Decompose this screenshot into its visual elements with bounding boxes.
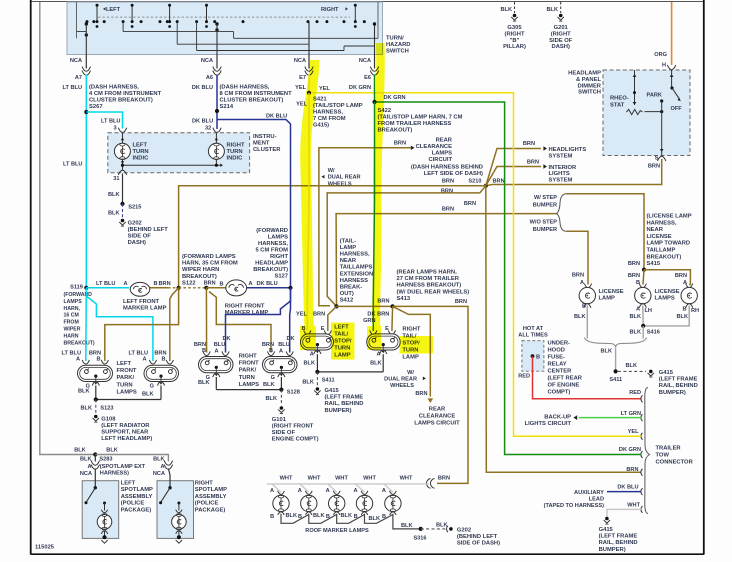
note w/ dual rear wheels (lower): [384, 370, 426, 389]
wire BLK right license lamp to S416: [643, 306, 689, 326]
svg-text:LIGHTS: LIGHTS: [549, 171, 570, 177]
wire BRN left marker lamp B to S122: [150, 281, 179, 288]
splice S422: [372, 100, 376, 104]
highlighter block left tail lamp label: [331, 323, 355, 360]
svg-text:DK BLU: DK BLU: [257, 281, 278, 287]
highlighter band over E6 green wire: [372, 43, 385, 342]
wire BRN S210 to S122 (front lamps feed): [179, 186, 486, 288]
svg-text:E7: E7: [299, 75, 306, 81]
splice S210: [442, 179, 505, 188]
svg-text:WIPER HARN: WIPER HARN: [182, 267, 219, 273]
switch internal routing wires: [77, 22, 379, 55]
svg-text:HARNESS): HARNESS): [100, 471, 129, 477]
switch contact dashed line: [98, 16, 350, 18]
svg-text:27 CM FROM TRAILER: 27 CM FROM TRAILER: [397, 276, 460, 282]
svg-text:MARKER LAMP: MARKER LAMP: [123, 305, 167, 311]
svg-text:A: A: [270, 488, 274, 494]
svg-text:SIDE OF: SIDE OF: [128, 234, 152, 240]
svg-text:DK GRN: DK GRN: [384, 95, 406, 101]
svg-text:CIRCUIT: CIRCUIT: [428, 157, 452, 163]
svg-text:DK BLU: DK BLU: [192, 85, 213, 91]
rheostat: [610, 70, 643, 115]
splice S128: [266, 388, 300, 406]
svg-text:BLK: BLK: [370, 361, 382, 367]
wire BLK spotlamp feed from top: [40, 2, 96, 455]
svg-text:S215: S215: [128, 205, 141, 211]
svg-text:SPOTLAMP: SPOTLAMP: [195, 487, 227, 493]
svg-text:YEL: YEL: [295, 85, 306, 91]
svg-text:A: A: [76, 357, 80, 363]
right spotlamp assembly box: [157, 469, 194, 544]
svg-text:RIGHT FRONT: RIGHT FRONT: [225, 303, 265, 309]
svg-text:LEAD: LEAD: [589, 496, 604, 502]
wire BRN S210 to headlights system: [486, 141, 547, 186]
splice S413: [377, 299, 394, 309]
wire LT BLU S119 to left marker lamp: [86, 281, 129, 288]
svg-text:A: A: [298, 488, 302, 494]
wire BRN S412 to S413: [337, 305, 393, 307]
svg-text:NCA: NCA: [153, 471, 165, 477]
svg-text:BRN: BRN: [442, 207, 454, 213]
svg-text:DASH): DASH): [552, 44, 570, 50]
svg-text:S127: S127: [274, 274, 288, 280]
svg-text:INSTRU-: INSTRU-: [253, 134, 277, 140]
svg-text:(LICENSE LAMP: (LICENSE LAMP: [647, 214, 692, 220]
wire RED to trailer connector: [533, 356, 642, 399]
wire ORG to headlamp switch: [654, 2, 671, 65]
wire DK BLU S214 branch to S127: [217, 114, 291, 288]
svg-text:W/: W/: [407, 370, 414, 376]
svg-text:BLK: BLK: [108, 192, 120, 198]
svg-text:BREAKOUT): BREAKOUT): [253, 267, 288, 273]
ground G201: [547, 2, 573, 50]
svg-text:B: B: [154, 281, 158, 287]
svg-text:LAMPS: LAMPS: [268, 235, 288, 241]
svg-text:LEFT: LEFT: [106, 7, 121, 13]
svg-text:G: G: [150, 384, 154, 390]
svg-text:BRN: BRN: [464, 201, 476, 207]
connector E7 (NCA): [294, 58, 313, 91]
svg-text:(POLICE: (POLICE: [121, 501, 145, 507]
svg-text:(TAIL/STOP LAMP HARN, 7 CM: (TAIL/STOP LAMP HARN, 7 CM: [378, 115, 463, 121]
wire BRN S415 to center license lamp: [628, 270, 644, 286]
svg-text:BRN: BRN: [159, 281, 171, 287]
svg-text:BUMPER): BUMPER): [325, 408, 352, 414]
svg-text:BLK: BLK: [574, 314, 586, 320]
svg-text:S415: S415: [647, 261, 661, 267]
svg-text:LEFT: LEFT: [117, 361, 132, 367]
wire BRN S210 to interior lights system: [486, 160, 547, 186]
svg-text:UNDER-: UNDER-: [548, 340, 571, 346]
svg-text:NEAR: NEAR: [340, 258, 357, 264]
svg-text:TOW: TOW: [656, 453, 670, 459]
svg-text:TURN: TURN: [133, 149, 149, 155]
svg-text:BUMPER): BUMPER): [599, 547, 626, 553]
svg-text:LEFT HEADLAMP): LEFT HEADLAMP): [101, 436, 152, 442]
license lamps center: [630, 284, 680, 321]
wire WHT trailer to G415: [607, 502, 641, 516]
svg-text:B: B: [582, 304, 586, 310]
svg-text:BLK: BLK: [501, 7, 513, 13]
wire BRN S122 dashed to junction: [179, 287, 207, 289]
svg-text:BRN: BRN: [628, 261, 640, 267]
svg-text:REAR: REAR: [429, 407, 446, 413]
svg-text:ASSEMBLY: ASSEMBLY: [121, 494, 153, 500]
svg-text:(DASH HARNESS,: (DASH HARNESS,: [89, 85, 139, 91]
svg-text:HAZARD: HAZARD: [386, 42, 410, 48]
svg-text:BRN: BRN: [493, 179, 505, 185]
svg-text:BLK: BLK: [630, 314, 642, 320]
svg-text:NCA: NCA: [294, 58, 306, 64]
wire BRN S412 riser to step-bumper brace: [336, 201, 556, 306]
svg-text:W/O STEP: W/O STEP: [530, 220, 558, 226]
svg-text:RIGHT: RIGHT: [321, 7, 339, 13]
svg-text:S210: S210: [468, 179, 481, 185]
underhood fuse-relay center box: [518, 326, 548, 380]
svg-text:BLU: BLU: [278, 342, 290, 348]
svg-text:TAILLAMP: TAILLAMP: [647, 248, 676, 254]
wire YEL S421 down to left tail lamp: [296, 93, 309, 331]
svg-text:BRN: BRN: [648, 164, 660, 170]
svg-text:BLK: BLK: [263, 382, 275, 388]
svg-text:OFF: OFF: [671, 106, 683, 112]
label auxiliary lead: [544, 490, 605, 509]
wire DK BLU S127 to right park/turn lamp1 A: [226, 288, 291, 353]
splice S122: [177, 286, 181, 290]
svg-text:REAR: REAR: [436, 138, 453, 144]
svg-text:CLUSTER BREAKOUT): CLUSTER BREAKOUT): [220, 98, 284, 104]
wire BLK tail lamps to S411 left: [317, 354, 383, 372]
svg-text:DK BLU: DK BLU: [266, 114, 287, 120]
splice S283: [74, 447, 118, 456]
svg-text:S122: S122: [182, 280, 196, 286]
roof marker lamps: [270, 488, 401, 520]
svg-text:ASSEMBLY: ASSEMBLY: [195, 494, 227, 500]
ground G305: [501, 2, 526, 50]
svg-text:DK GRN: DK GRN: [619, 447, 641, 453]
labels WHT: [280, 476, 413, 482]
connector 31 below cluster: [113, 170, 126, 182]
svg-text:LIGHTS CIRCUIT: LIGHTS CIRCUIT: [525, 421, 572, 427]
svg-text:PACKAGE): PACKAGE): [195, 507, 226, 513]
svg-text:HEADLIGHTS: HEADLIGHTS: [549, 147, 587, 153]
wire: switch exit A7 stub: [85, 55, 87, 69]
svg-text:DK BLU: DK BLU: [617, 485, 638, 491]
svg-text:CENTER: CENTER: [548, 368, 573, 374]
splice S214: [215, 109, 219, 113]
svg-text:DIMMER: DIMMER: [577, 83, 601, 89]
svg-text:OF ENGINE: OF ENGINE: [548, 382, 580, 388]
wire BRN S415 to right license lamp: [644, 270, 690, 286]
connector A right spotlamp: [153, 456, 173, 477]
svg-text:LICENSE: LICENSE: [655, 289, 680, 295]
svg-text:WHT: WHT: [363, 476, 376, 482]
svg-text:CONNECTOR: CONNECTOR: [656, 460, 694, 466]
wire BRN S122 jog to left park/turn lamp2 B: [170, 288, 179, 361]
svg-text:RH: RH: [691, 308, 699, 314]
svg-text:EXTENSION: EXTENSION: [340, 271, 374, 277]
svg-text:BRN: BRN: [415, 391, 427, 397]
svg-text:S413: S413: [397, 296, 411, 302]
svg-text:115025: 115025: [35, 545, 55, 551]
svg-text:HEADLAMP: HEADLAMP: [568, 71, 601, 77]
svg-text:(FORWARD: (FORWARD: [256, 228, 288, 234]
connector H: [662, 63, 676, 70]
svg-text:DUAL REAR: DUAL REAR: [328, 175, 361, 181]
svg-text:B: B: [682, 306, 686, 312]
svg-text:B: B: [270, 514, 274, 520]
svg-text:BRN: BRN: [628, 273, 640, 279]
wire: switch exit A6 stub: [216, 55, 218, 69]
connector A6 (NCA): [192, 58, 221, 91]
svg-text:(TAIL/STOP LAMP: (TAIL/STOP LAMP: [313, 103, 363, 109]
svg-text:HARNESS BREAKOUT): HARNESS BREAKOUT): [397, 283, 462, 289]
splice S127: [288, 286, 292, 290]
switch pole stubs: [96, 4, 357, 23]
svg-text:LAMP: LAMP: [402, 354, 419, 360]
junction node BRN: [204, 281, 224, 290]
svg-text:SWITCH: SWITCH: [386, 48, 409, 54]
svg-text:7 CM FROM: 7 CM FROM: [313, 116, 346, 122]
svg-text:NEAR: NEAR: [647, 227, 664, 233]
svg-text:AUXILIARY: AUXILIARY: [574, 490, 604, 496]
svg-text:DASH): DASH): [128, 240, 146, 246]
svg-text:LEFT SIDE OF DASH): LEFT SIDE OF DASH): [424, 171, 483, 177]
svg-text:LICENSE: LICENSE: [647, 234, 672, 240]
wire WHT roof marker daisy chain: [267, 484, 429, 492]
svg-text:BLK: BLK: [142, 392, 154, 398]
ground G202 bottom: [447, 526, 501, 547]
svg-text:INTERIOR: INTERIOR: [549, 165, 578, 171]
right front park/turn lamp 2: [262, 336, 297, 388]
svg-text:G108: G108: [101, 417, 116, 423]
svg-text:CLUSTER: CLUSTER: [253, 147, 281, 153]
svg-text:HARNESS,: HARNESS,: [258, 241, 288, 247]
svg-text:S316: S316: [413, 535, 426, 541]
svg-text:BLK: BLK: [547, 7, 559, 13]
wire LT BLU A7 to S267 and S119: [85, 75, 87, 288]
svg-text:PARK: PARK: [647, 93, 662, 99]
svg-text:S123: S123: [100, 406, 113, 412]
svg-text:BLK: BLK: [626, 363, 638, 369]
wire BRN rear clearance lamps circuit branch: [327, 186, 486, 307]
svg-text:S283: S283: [99, 456, 112, 462]
svg-text:BLK: BLK: [153, 456, 165, 462]
svg-text:HARNESS,: HARNESS,: [313, 110, 343, 116]
svg-text:NCA: NCA: [201, 58, 213, 64]
svg-text:YEL: YEL: [628, 429, 639, 435]
wire BRN junction to right marker lamp B: [206, 287, 225, 289]
license lamps ground brace: [585, 338, 647, 355]
svg-text:WHT: WHT: [627, 502, 640, 508]
svg-text:A: A: [580, 280, 584, 286]
svg-text:5 CM FROM: 5 CM FROM: [255, 248, 288, 254]
svg-text:WHEELS: WHEELS: [390, 383, 414, 389]
svg-text:BREAKOUT): BREAKOUT): [647, 254, 682, 260]
svg-text:B: B: [220, 282, 224, 288]
svg-text:BLK: BLK: [304, 361, 316, 367]
svg-text:BRN: BRN: [626, 467, 638, 473]
svg-text:PARK/: PARK/: [239, 368, 257, 374]
svg-text:SIDE OF DASH): SIDE OF DASH): [457, 541, 500, 547]
svg-text:HARN, 35 CM FROM: HARN, 35 CM FROM: [182, 261, 238, 267]
brace w/ or w/o step bumper: [530, 194, 567, 233]
ground G415 bottom: [599, 517, 638, 553]
svg-text:CLEARANCE: CLEARANCE: [416, 144, 453, 150]
svg-text:S411: S411: [609, 377, 622, 383]
ground G202: [119, 219, 168, 246]
svg-text:G305: G305: [507, 25, 522, 31]
wire BLK brace stem to S411: [615, 348, 617, 372]
wire BLK roof marker chain: [281, 514, 421, 529]
svg-text:LEFT: LEFT: [133, 143, 148, 149]
svg-text:BLK: BLK: [630, 330, 642, 336]
splice S267: [84, 110, 88, 114]
svg-text:FUSE-: FUSE-: [548, 354, 565, 360]
left front park/turn lamp 2: [129, 351, 179, 398]
svg-text:BLU: BLU: [214, 342, 226, 348]
splice S415: [628, 261, 646, 272]
svg-text:FRONT: FRONT: [239, 361, 259, 367]
svg-text:TAILLAMPS: TAILLAMPS: [340, 265, 373, 271]
svg-text:BRN: BRN: [442, 179, 454, 185]
svg-text:G201: G201: [554, 25, 569, 31]
svg-text:HEADLAMP: HEADLAMP: [255, 261, 288, 267]
label DK GRN at right tail lamp: [363, 311, 375, 324]
svg-text:(W/ DUEL REAR WHEELS): (W/ DUEL REAR WHEELS): [397, 289, 470, 295]
svg-text:G415: G415: [599, 527, 614, 533]
svg-text:FROM TRAILER HARNESS: FROM TRAILER HARNESS: [378, 121, 452, 127]
wire DK BLU right marker lamp A to S127: [247, 281, 291, 288]
svg-text:HARNESS,: HARNESS,: [340, 252, 370, 258]
svg-text:CLUSTER BREAKOUT): CLUSTER BREAKOUT): [89, 98, 153, 104]
svg-text:LAMPS: LAMPS: [64, 299, 83, 305]
svg-text:SIDE OF: SIDE OF: [272, 430, 296, 436]
wire BRN S413 to right tail lamp E: [377, 306, 392, 331]
svg-text:FROM: FROM: [64, 320, 79, 326]
svg-text:BLK: BLK: [108, 211, 120, 217]
svg-text:(LEFT FRAME: (LEFT FRAME: [659, 377, 698, 383]
svg-text:SYSTEM: SYSTEM: [549, 153, 573, 159]
svg-text:BLK: BLK: [313, 513, 325, 519]
svg-text:(RIGHT: (RIGHT: [505, 31, 525, 37]
svg-text:ORG: ORG: [654, 52, 667, 58]
svg-text:ENGINE COMPT): ENGINE COMPT): [272, 437, 319, 443]
svg-text:S411: S411: [322, 378, 335, 384]
svg-text:LAMPS: LAMPS: [117, 389, 137, 395]
wire BRN to roof marker connector: [426, 476, 450, 489]
svg-text:RED: RED: [518, 374, 530, 380]
wire BLK right park/turn G wires to S128: [216, 377, 281, 390]
svg-text:RED: RED: [629, 390, 641, 396]
splice S119: [70, 284, 88, 290]
svg-text:BLK: BLK: [198, 380, 210, 386]
svg-text:BLK: BLK: [601, 349, 613, 355]
wire DK BLU auxiliary lead: [607, 485, 641, 492]
svg-text:G: G: [271, 375, 275, 381]
svg-text:TRAILER: TRAILER: [656, 446, 682, 452]
svg-text:BREAK-: BREAK-: [340, 284, 363, 290]
svg-text:RAIL, BEHIND: RAIL, BEHIND: [325, 401, 364, 407]
svg-text:SUPPORT, NEAR: SUPPORT, NEAR: [101, 430, 149, 436]
wire BLK cluster to S215: [108, 174, 123, 204]
svg-text:CLEARANCE: CLEARANCE: [419, 414, 456, 420]
svg-text:BLK: BLK: [677, 314, 689, 320]
svg-text:& PANEL: & PANEL: [576, 77, 601, 83]
wire DK GRN S422 to trailer connector: [375, 102, 642, 455]
svg-text:BLK: BLK: [286, 513, 298, 519]
svg-text:BRN: BRN: [438, 476, 450, 482]
svg-text:ALL TIMES: ALL TIMES: [518, 333, 548, 339]
svg-text:A: A: [310, 352, 314, 358]
wire BLK left license lamp down: [586, 306, 588, 339]
svg-text:PACKAGE): PACKAGE): [121, 507, 152, 513]
svg-text:WHT: WHT: [400, 476, 413, 482]
svg-text:WIPER: WIPER: [64, 327, 81, 333]
splice S411 (right): [609, 363, 637, 383]
svg-text:WHT: WHT: [335, 476, 348, 482]
wire YEL E7 to left tail lamp B: [308, 75, 310, 93]
connector E6 (NCA): [349, 58, 379, 91]
right front park/turn lamp 1: [194, 336, 233, 386]
svg-text:HARNESS: HARNESS: [340, 278, 368, 284]
svg-text:TURN: TURN: [227, 149, 243, 155]
svg-text:FRONT: FRONT: [117, 368, 137, 374]
wire LT BLU S119 to left park/turn lamp A: [85, 288, 88, 361]
wire DK GRN S422 down to right tail lamp: [373, 102, 374, 331]
svg-text:(BEHIND LEFT: (BEHIND LEFT: [457, 534, 498, 540]
highlighter blob right tail lamp: [367, 326, 381, 350]
svg-text:B: B: [269, 348, 273, 354]
left front marker lamp: [123, 282, 167, 311]
svg-text:LAMP: LAMP: [599, 296, 616, 302]
svg-text:SPOTLAMP: SPOTLAMP: [121, 487, 153, 493]
left spotlamp assembly box: [82, 469, 119, 544]
svg-text:COMPT): COMPT): [548, 389, 571, 395]
highlighter band over E7 yellow wire: [300, 43, 433, 360]
highlighter block right tail lamp label: [400, 336, 434, 354]
svg-text:DK GRN: DK GRN: [349, 85, 371, 91]
svg-text:LT BLU: LT BLU: [63, 162, 82, 168]
left turn indicator lamp: [114, 133, 149, 162]
svg-text:STAT: STAT: [610, 102, 625, 108]
labels DK BLU 32: [192, 118, 213, 131]
wire BLK left park/turn G wires to S123: [96, 386, 161, 400]
note w/ dual rear wheels (upper): [322, 168, 361, 187]
wire LT BLU S119 branch to left park/turn lamp2 A: [86, 296, 153, 361]
svg-text:8 CM FROM INSTRUMENT: 8 CM FROM INSTRUMENT: [220, 91, 293, 97]
svg-text:W/: W/: [328, 168, 335, 174]
labels BLK roof chain: [286, 513, 413, 529]
svg-text:(REAR LAMPS HARN,: (REAR LAMPS HARN,: [397, 270, 458, 276]
trailer pin arcs: [641, 395, 643, 512]
svg-text:BLK: BLK: [74, 447, 86, 453]
svg-text:G415: G415: [325, 388, 340, 394]
svg-text:BRN: BRN: [523, 141, 535, 147]
svg-text:INDIC: INDIC: [133, 155, 150, 161]
svg-text:INDIC: INDIC: [227, 155, 244, 161]
svg-text:4 CM FROM INSTRUMENT: 4 CM FROM INSTRUMENT: [89, 91, 162, 97]
svg-text:YEL: YEL: [319, 86, 330, 92]
svg-text:BLK: BLK: [80, 456, 92, 462]
svg-text:(DASH HARNESS BEHIND: (DASH HARNESS BEHIND: [411, 165, 483, 171]
connector 32 at cluster: [213, 128, 221, 133]
svg-text:BLK: BLK: [302, 379, 314, 385]
svg-text:BLK: BLK: [369, 516, 381, 522]
svg-text:BRN: BRN: [394, 141, 406, 147]
splice S421: [307, 91, 311, 95]
splice S316: [413, 522, 447, 541]
